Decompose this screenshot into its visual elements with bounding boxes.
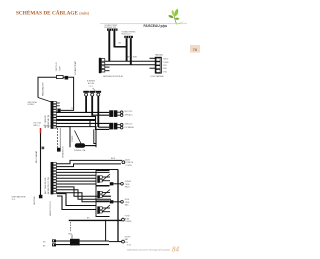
svg-text:CONN TABLEAU: CONN TABLEAU xyxy=(150,75,165,78)
svg-text:RD/PU: RD/PU xyxy=(125,236,131,238)
inline fuse bottom xyxy=(70,239,80,246)
wire E3 thick xyxy=(56,119,96,121)
svg-text:1 BK/Y: 1 BK/Y xyxy=(163,59,169,61)
rotated pin labels left of F xyxy=(45,177,50,194)
svg-text:TOURS: TOURS xyxy=(125,165,132,167)
svg-text:78: 78 xyxy=(193,48,197,52)
connector B xyxy=(124,36,133,38)
wire F7 xyxy=(56,180,96,182)
svg-text:TRIM: TRIM xyxy=(125,202,130,204)
svg-text:3 PU: 3 PU xyxy=(163,65,168,67)
wire stub C pin3 xyxy=(105,66,110,68)
page tab 78 xyxy=(190,45,200,53)
svg-text:12: 12 xyxy=(71,108,73,110)
svg-text:GRN ACC: GRN ACC xyxy=(125,114,134,117)
svg-text:POMPE: POMPE xyxy=(125,221,132,223)
svg-text:5 RD: 5 RD xyxy=(163,71,168,73)
terminal row T184 xyxy=(110,182,123,185)
svg-text:ALIM: ALIM xyxy=(125,158,130,161)
wire diagonal to connector E xyxy=(38,98,51,102)
wire A1 xyxy=(108,31,110,62)
svg-text:BK/LT GRN: BK/LT GRN xyxy=(128,57,138,59)
wire stub D pin1 xyxy=(150,57,156,59)
wire corner C2 xyxy=(57,196,96,210)
svg-text:GRN 12V: GRN 12V xyxy=(125,124,133,126)
bottom plugs xyxy=(52,239,56,246)
svg-text:BK/Y 12V: BK/Y 12V xyxy=(125,111,134,113)
wire B1 xyxy=(126,38,128,61)
terminal plug P0 xyxy=(122,161,125,164)
svg-text:FUSIBLE 50A: FUSIBLE 50A xyxy=(44,125,56,128)
wire F10 corner xyxy=(56,190,111,199)
terminal row T202 xyxy=(110,200,123,203)
svg-text:SCHÉMAS DE CÂBLAGE (suite): SCHÉMAS DE CÂBLAGE (suite) xyxy=(16,9,90,17)
wire E1 xyxy=(56,111,109,113)
fuse F1 lozenge xyxy=(75,143,85,148)
wire B2 xyxy=(130,38,132,65)
sub box G2 xyxy=(96,186,110,201)
svg-text:N 14: N 14 xyxy=(127,245,131,247)
svg-text:CAPTEUR: CAPTEUR xyxy=(55,62,58,71)
terminal on box bottom xyxy=(57,109,60,112)
inline connector J1 xyxy=(109,110,123,117)
wire stub E pin1 xyxy=(56,102,59,104)
svg-text:FAISCEAU EFI: FAISCEAU EFI xyxy=(42,82,45,96)
coil plug T1 xyxy=(83,91,89,113)
wire stub D pin4 xyxy=(150,67,156,69)
inline connector J2 xyxy=(109,123,123,130)
svg-text:MASSE MOTEUR: MASSE MOTEUR xyxy=(49,201,52,216)
sensor S1 in top edge xyxy=(57,75,64,78)
wire pair down from E xyxy=(57,128,59,152)
svg-text:ALIM: ALIM xyxy=(125,217,130,220)
wire bus top xyxy=(105,60,156,62)
svg-text:VERS BATTERIE: VERS BATTERIE xyxy=(12,196,27,199)
svg-text:BOBINES: BOBINES xyxy=(87,81,96,83)
wire diagonal in box K xyxy=(75,131,82,144)
long wire W220 xyxy=(69,219,122,221)
svg-text:TRIM: TRIM xyxy=(125,184,130,186)
svg-text:DEMARREUR: DEMARREUR xyxy=(62,146,65,158)
tick above fuse xyxy=(71,235,73,239)
svg-text:FAISCEAU MOTEUR AV: FAISCEAU MOTEUR AV xyxy=(103,75,124,78)
wire E5 xyxy=(56,126,70,128)
wire stub E pin2 xyxy=(56,105,59,107)
wire F6 xyxy=(56,177,96,179)
connector A xyxy=(107,29,118,31)
logo leaf sprig top right xyxy=(168,9,183,25)
wire E2 xyxy=(56,116,109,129)
svg-text:BK/Y GRN PU RD: BK/Y GRN PU RD xyxy=(45,177,47,194)
wire A2 xyxy=(113,31,115,48)
red wire cap xyxy=(40,128,42,133)
coil plug T2 xyxy=(89,91,95,116)
wire left main battery xyxy=(40,128,42,195)
svg-text:TABLEAU: TABLEAU xyxy=(155,54,164,57)
svg-text:SONDE: SONDE xyxy=(28,104,35,106)
junction tick on battery wire xyxy=(42,147,45,150)
wire F11 corner xyxy=(56,193,109,202)
wire box top edge xyxy=(38,77,57,97)
svg-text:TEMP: TEMP xyxy=(60,65,62,71)
wire T2 to J1 xyxy=(92,114,109,116)
svg-text:GRN/W: GRN/W xyxy=(125,181,131,183)
connector F xyxy=(51,162,57,194)
svg-text:1 2 3: 1 2 3 xyxy=(89,86,93,88)
svg-text:COMPTE: COMPTE xyxy=(125,162,133,164)
svg-text:VOYANT TEMP: VOYANT TEMP xyxy=(74,60,77,75)
svg-text:84: 84 xyxy=(172,246,180,254)
leader line to coils xyxy=(93,88,96,91)
svg-text:FUSIBLE 15A: FUSIBLE 15A xyxy=(74,149,86,152)
wire F4 xyxy=(56,171,109,173)
svg-text:FAISCEAU p/pu: FAISCEAU p/pu xyxy=(144,24,168,28)
svg-text:FAISCEAU: FAISCEAU xyxy=(33,195,36,205)
bus vertical xyxy=(117,170,119,242)
wire jog A2-B1 xyxy=(114,46,126,48)
svg-text:BAT (+): BAT (+) xyxy=(34,124,40,127)
wire J2 drop to box K xyxy=(94,129,96,143)
tick on W220 xyxy=(70,222,72,232)
bottom right jog xyxy=(106,220,109,241)
terminal row T241 xyxy=(109,240,124,243)
svg-text:PU/W: PU/W xyxy=(125,216,130,218)
connector D xyxy=(155,57,162,74)
wire F2 staircase xyxy=(56,164,121,167)
wire bus bottom xyxy=(105,64,156,66)
svg-text:Guide Nautic Instructions Tech: Guide Nautic Instructions Techniques d'O… xyxy=(127,248,171,251)
svg-text:HUILE 12V: HUILE 12V xyxy=(122,34,132,36)
wire stub C pin4 xyxy=(105,70,110,72)
wire F5 xyxy=(56,174,96,176)
svg-text:ALLUM: ALLUM xyxy=(88,82,94,85)
wire F1 staircase xyxy=(56,160,122,163)
connector E xyxy=(51,101,57,129)
svg-text:POMPE: POMPE xyxy=(72,135,74,142)
terminal plug P220 xyxy=(122,218,125,221)
box K pump outline xyxy=(70,127,96,148)
svg-text:BK WH TN GY OR: BK WH TN GY OR xyxy=(48,177,50,194)
svg-text:PU MASSE: PU MASSE xyxy=(125,126,135,129)
wire E4 xyxy=(56,122,109,124)
wire F8 xyxy=(56,183,96,185)
header rule line xyxy=(100,23,187,25)
starter nub xyxy=(57,148,61,152)
svg-text:2 GRN: 2 GRN xyxy=(163,62,169,64)
connector C xyxy=(99,58,105,73)
coil plug T3 xyxy=(96,91,110,127)
wire F9 corner xyxy=(56,187,111,196)
node S2 black square xyxy=(65,76,69,80)
terminal nub bottom of battery wire xyxy=(39,195,43,199)
pin labels right of D xyxy=(163,59,169,74)
stub bar to box K xyxy=(89,120,91,127)
wire fuse to box edge xyxy=(85,145,96,147)
rotated pin labels left of E xyxy=(45,114,50,128)
svg-text:RD 8 GA BAT: RD 8 GA BAT xyxy=(35,150,38,163)
wire box right edge xyxy=(61,77,74,110)
sub box G3 xyxy=(96,202,110,217)
sub box G1 xyxy=(96,171,110,186)
wire F3 xyxy=(56,169,118,171)
bottom wire pair xyxy=(56,240,109,242)
svg-text:BL/W: BL/W xyxy=(125,199,130,201)
wire corner C1 xyxy=(57,194,96,206)
